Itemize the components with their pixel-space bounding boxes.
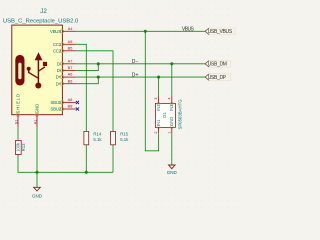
svg-text:IN2: IN2 (156, 104, 161, 111)
pin SHIELD S1 (15, 93, 21, 127)
svg-text:B8: B8 (68, 105, 73, 109)
power symbol GND left (32, 187, 43, 198)
svg-text:USB_DM: USB_DM (208, 62, 227, 68)
svg-text:A8: A8 (68, 98, 73, 102)
wire R14 bottom (85, 145, 87, 172)
wire A1 GND pin down (36, 127, 38, 172)
svg-text:5.1k: 5.1k (120, 137, 129, 142)
svg-text:SP0503BAHTG: SP0503BAHTG (177, 99, 182, 130)
J2 USB-C capsule graphic (15, 55, 24, 86)
svg-text:GND: GND (169, 117, 174, 126)
svg-text:R15: R15 (120, 131, 128, 136)
svg-text:B6: B6 (68, 79, 73, 83)
svg-text:S1: S1 (15, 120, 19, 125)
svg-text:IN3: IN3 (169, 104, 174, 111)
no-connect SBU1 (76, 101, 79, 104)
pin D+ B6 (56, 79, 77, 86)
svg-text:D1: D1 (162, 112, 167, 118)
svg-text:SHIELD: SHIELD (16, 93, 21, 113)
junction rail GND tap (35, 171, 38, 174)
D1 pin 2 (154, 126, 160, 134)
svg-text:GND: GND (167, 170, 178, 175)
svg-text:CC2: CC2 (53, 48, 62, 53)
svg-text:B5: B5 (68, 46, 73, 50)
svg-text:GND: GND (32, 193, 43, 198)
D1 pin 1 (167, 126, 173, 134)
pin SBU1 A8 (50, 98, 75, 105)
pin CC1 A5 (53, 40, 76, 47)
svg-text:VBUS: VBUS (182, 27, 195, 33)
D1 pin 3 (154, 96, 160, 106)
svg-text:VBUS: VBUS (50, 29, 61, 34)
svg-text:USB_VBUS: USB_VBUS (208, 29, 233, 35)
connector J2 body (12, 25, 63, 115)
pin D+ A6 (56, 73, 77, 80)
svg-text:A5: A5 (68, 40, 73, 44)
wire VBUS horizontal (76, 30, 205, 32)
svg-text:A6: A6 (68, 73, 73, 77)
svg-text:R13: R13 (21, 143, 26, 151)
svg-text:A7: A7 (68, 59, 73, 63)
pin CC2 B5 (53, 46, 76, 53)
svg-text:R14: R14 (93, 131, 101, 136)
pin D- B7 (57, 66, 76, 73)
svg-text:A1: A1 (34, 120, 38, 125)
wire left GND stub (36, 172, 38, 187)
global label USB_DM (205, 61, 231, 68)
wire D1 pin3 to D+ (158, 77, 160, 96)
svg-text:A4: A4 (68, 27, 73, 31)
wire D- A7 row (76, 63, 205, 65)
wire VBUS vertical to D1 pin2 (145, 31, 158, 151)
svg-text:D+: D+ (56, 81, 62, 86)
svg-text:USB_C_Receptacle_USB2.0: USB_C_Receptacle_USB2.0 (3, 18, 79, 24)
wire D1 pin1 to GND (171, 133, 173, 165)
svg-text:D+: D+ (132, 73, 139, 79)
svg-text:IN1: IN1 (156, 119, 161, 126)
pin GND A1 (34, 104, 40, 127)
no-connect SBU2 (76, 107, 79, 110)
resistor R15 (111, 131, 130, 144)
pin D- A7 (57, 59, 76, 66)
svg-text:SBU2: SBU2 (50, 107, 61, 112)
svg-text:GND: GND (35, 104, 40, 114)
D1 pin 4 (167, 96, 173, 106)
wire D+ B6 jog (76, 77, 98, 84)
junction D+ D1 pin3 (157, 76, 160, 79)
resistor R14 (84, 131, 102, 144)
svg-text:J2: J2 (40, 8, 47, 15)
svg-text:D−: D− (132, 59, 139, 65)
power symbol GND right (167, 165, 178, 175)
wire ground rail (37, 171, 113, 173)
pin SBU2 B8 (50, 105, 75, 112)
pin VBUS A4 (50, 27, 76, 34)
wire R15 bottom (112, 145, 114, 172)
junction D- D1 pin4 (170, 62, 173, 65)
svg-text:3: 3 (154, 97, 158, 99)
svg-text:SBU1: SBU1 (50, 100, 61, 105)
wire CC2 to R15 (76, 51, 113, 132)
global label USB_DP (205, 74, 231, 81)
junction VBUS/D1 (144, 30, 147, 33)
svg-text:2: 2 (154, 131, 158, 133)
svg-text:1: 1 (167, 131, 171, 133)
global label USB_VBUS (205, 28, 235, 35)
svg-text:4: 4 (167, 97, 171, 99)
junction D+ jog (97, 76, 100, 79)
wire D+ A6 row (76, 76, 205, 78)
wire R13 to rail (18, 153, 37, 172)
wire D1 pin4 to D- (171, 64, 173, 96)
svg-text:B7: B7 (68, 66, 73, 70)
wire D- B7 jog (76, 64, 98, 71)
svg-text:USB_DP: USB_DP (208, 75, 227, 81)
svg-text:5.1k: 5.1k (93, 137, 102, 142)
junction D- jog (97, 62, 100, 65)
TVS diode array D1 (155, 103, 175, 127)
wire CC1 to R14 (76, 44, 86, 131)
svg-text:CC1: CC1 (53, 42, 62, 47)
J2 USB trident graphic (27, 52, 47, 88)
svg-text:100k: 100k (16, 142, 21, 152)
wire S1 pin to R13 (17, 127, 19, 140)
junction rail R14 (85, 171, 88, 174)
svg-text:D+: D+ (56, 75, 62, 80)
resistor R13 (15, 141, 26, 155)
